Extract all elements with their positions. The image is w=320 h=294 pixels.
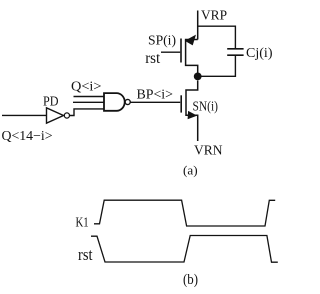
svg-text:rst: rst [145,50,161,67]
wire rst to SP(i) gate [161,51,180,53]
waveform rst [91,236,278,263]
capacitor Cj(i) bottom plate [227,54,243,56]
svg-text:Q<i>: Q<i> [71,79,102,94]
NAND output bubble [125,99,130,104]
inverter PD [47,108,64,123]
transistor SP(i) channel and legs [186,40,198,77]
svg-text:rst: rst [78,245,93,264]
wire BP<i> [130,101,180,103]
svg-text:SN(i): SN(i) [193,100,219,115]
wire Q<i> bus line 1 [74,96,105,98]
wire VRP rail [197,11,199,40]
svg-text:VRP: VRP [201,9,227,24]
junction node dot [194,73,202,81]
capacitor Cj(i) bottom branch [202,56,236,77]
capacitor Cj(i) top branch [198,26,236,48]
svg-text:Q<14−i>: Q<14−i> [2,129,53,144]
wire inverter to NAND input [70,109,105,116]
svg-text:PD: PD [43,95,59,110]
svg-text:VRN: VRN [194,144,223,159]
waveform K1 [94,200,275,226]
NAND gate U1 [104,93,125,111]
svg-text:BP<i>: BP<i> [137,88,174,103]
transistor SN(i) channel and legs [186,81,198,142]
wire input Q<14-i> [2,114,47,116]
inverter PD output bubble [64,113,69,118]
wire Q<i> bus line 2 [73,101,104,103]
svg-text:K1: K1 [76,216,89,231]
transistor SN(i) source arrow [188,111,198,119]
transistor SP(i) gate bar [180,39,182,63]
svg-text:(a): (a) [183,163,198,178]
svg-text:(b): (b) [183,272,198,288]
svg-text:SP(i): SP(i) [148,34,176,49]
capacitor Cj(i) top plate [227,48,243,50]
transistor SP(i) source arrow [185,35,196,46]
transistor SN(i) gate bar [180,95,182,112]
svg-text:Cj(i): Cj(i) [246,46,273,61]
